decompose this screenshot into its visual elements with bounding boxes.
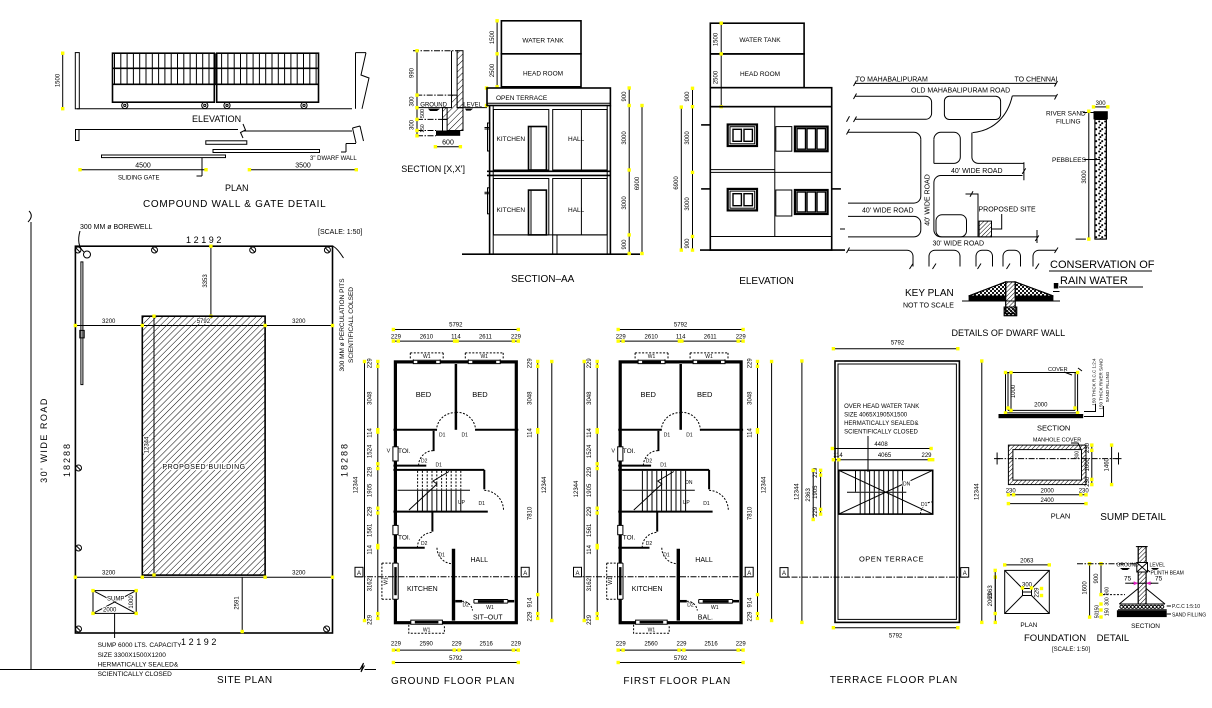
svg-text:CONSERVATION OF: CONSERVATION OF [1050,259,1155,271]
right dim 230/1000/230 [1091,445,1093,485]
toilet 1 walls [657,431,659,451]
svg-text:2000: 2000 [1034,403,1048,409]
dim 1000 [1010,373,1012,411]
svg-text:D1: D1 [439,553,446,559]
FF left window [728,125,757,147]
svg-text:1000: 1000 [129,595,135,609]
svg-text:229: 229 [367,466,373,477]
sunshade dashed box [410,353,443,360]
wall between bedrooms [455,364,458,411]
west window W1 [393,563,398,599]
gate mid rails [113,67,319,69]
svg-text:HERMATICALLY SEALED&: HERMATICALLY SEALED& [98,662,179,669]
svg-text:4500: 4500 [135,163,151,170]
block2 rounded rect [944,96,1000,119]
svg-text:229: 229 [747,611,753,622]
svg-text:914: 914 [747,597,753,608]
svg-text:HALL: HALL [568,136,585,143]
svg-text:1561: 1561 [587,523,593,537]
svg-text:12344: 12344 [542,476,548,493]
mid dash-dot level [416,94,451,96]
svg-text:114: 114 [587,428,593,438]
svg-text:DN: DN [685,480,693,486]
section line A-A [575,576,752,578]
svg-text:SAND FILLING: SAND FILLING [1105,371,1110,402]
left wall sunshades [485,128,490,194]
svg-text:BED: BED [697,390,713,399]
svg-text:1500: 1500 [56,73,62,87]
svg-text:229: 229 [813,506,819,517]
first floor hall room box [553,110,607,171]
bedroom south walls [393,429,436,431]
OMR road top edge [854,81,1058,87]
svg-text:2063: 2063 [1020,558,1034,564]
dim column x=364.5 [364,362,366,621]
dim 4500 [78,163,207,172]
left road lower edge + corner down [848,216,921,237]
ground floor hall box [553,179,607,235]
svg-text:D2: D2 [421,541,428,547]
plan left post [76,130,80,141]
svg-text:12344: 12344 [574,480,580,497]
svg-text:FILLING: FILLING [1056,119,1081,126]
svg-text:GROUND FLOOR PLAN: GROUND FLOOR PLAN [391,676,515,687]
borewell circle [84,251,91,258]
vertical dim line [416,51,418,136]
staircase walls [618,469,709,471]
svg-text:HALL: HALL [695,557,713,564]
sunshade dashed box [465,353,503,360]
plan left dim 2063 [994,570,996,613]
svg-text:2500: 2500 [490,63,496,77]
svg-text:D1: D1 [660,463,667,469]
footing plan square [1005,570,1050,613]
svg-text:229: 229 [587,506,593,517]
svg-text:300: 300 [410,119,416,130]
south window W1 kitchen [636,620,668,625]
GF left window [728,189,757,211]
connector road right edge [972,133,1024,164]
kitchen door D1 [437,548,453,564]
staircase walls [393,469,484,471]
pit column sand fill [1095,119,1107,239]
svg-text:TOI.: TOI. [623,535,636,542]
center line [997,458,1118,460]
big vertical road right edge lower seg [934,183,978,237]
svg-text:ELEVATION: ELEVATION [739,276,794,287]
dash-dot footing bottom [417,135,436,137]
dim 2591 [241,577,243,633]
svg-text:5792: 5792 [674,322,688,328]
gate panel frame left leaf [113,53,215,102]
borewell leader [79,231,84,252]
middle road end cap [1022,162,1025,180]
kitchen door D1 [662,548,678,564]
first floor doorway [529,127,547,171]
svg-text:BAL.: BAL. [698,615,713,622]
dim 6900 [641,106,643,254]
dim 3500 [248,163,358,172]
svg-text:W1: W1 [705,354,713,360]
rubble row [1120,605,1123,608]
svg-text:229: 229 [367,614,373,625]
footing slopes [1119,589,1165,605]
svg-text:1500: 1500 [490,30,496,44]
dim line 1500/2500 [496,21,498,87]
svg-text:BED: BED [472,390,488,399]
dim line 1500/2500 inner [720,23,722,107]
svg-text:300 MM ø PERCULATION PITS: 300 MM ø PERCULATION PITS [339,278,346,372]
svg-text:12344: 12344 [762,476,768,493]
svg-text:SECTION–AA: SECTION–AA [511,274,575,285]
svg-text:150: 150 [1104,608,1110,617]
svg-text:6900: 6900 [635,176,641,190]
proposed site boundary [966,191,979,237]
svg-text:3048: 3048 [587,391,593,405]
svg-text:W1: W1 [423,627,431,633]
south window W1 kitchen [411,620,443,625]
sump plan ring hatched [1008,445,1086,485]
svg-text:3048: 3048 [367,391,373,405]
dim line 3200/3200 bottom [75,576,332,578]
svg-text:229: 229 [367,506,373,517]
dim column 900/3000/3000/900 [692,88,694,250]
center column rect [1023,589,1032,596]
svg-text:SECTION: SECTION [1131,623,1160,630]
svg-text:1460: 1460 [1105,457,1111,471]
kitchen east wall [452,549,455,621]
stair treads lower flight [642,491,685,511]
svg-text:SUMP DETAIL: SUMP DETAIL [1100,512,1166,523]
bottom road line with break [0,663,376,672]
svg-text:GROUND: GROUND [420,102,447,108]
svg-text:LEVEL: LEVEL [1150,563,1166,569]
svg-text:KITCHEN: KITCHEN [497,136,526,143]
dim column x=377.8 [377,362,379,619]
svg-text:A: A [523,571,527,577]
svg-text:1561: 1561 [367,523,373,537]
tank leader [867,436,869,472]
svg-text:KITCHEN: KITCHEN [497,207,526,214]
svg-text:D1: D1 [663,553,670,559]
ground line [462,253,640,255]
svg-text:SECTION: SECTION [1037,424,1070,433]
ground floor kitchen box [494,179,549,235]
svg-text:D1: D1 [479,501,486,507]
svg-text:229: 229 [1035,587,1041,598]
sit-out divider wall and window W1 [680,600,687,603]
step lines [443,108,448,131]
svg-text:114: 114 [367,544,373,554]
parapet corner dots [485,86,488,89]
svg-text:900: 900 [685,238,691,249]
svg-text:3048: 3048 [747,391,753,405]
30' road lower edge with plot openings [848,250,1056,266]
svg-text:2611: 2611 [479,334,493,340]
svg-text:229: 229 [587,614,593,625]
svg-text:LEVEL: LEVEL [463,102,482,108]
svg-text:TO MAHABALIPURAM: TO MAHABALIPURAM [856,77,928,84]
svg-text:229: 229 [736,642,747,648]
left dim 229/1905/229 [820,470,822,514]
wall hatched strip [457,51,463,108]
svg-text:SUMP 6000 LTS. CAPACITY: SUMP 6000 LTS. CAPACITY [98,642,182,649]
leader pebblees [1084,159,1100,161]
dim 3353 [210,246,212,316]
svg-text:WATER TANK: WATER TANK [522,38,564,45]
svg-text:2610: 2610 [420,334,434,340]
svg-text:D1: D1 [921,502,928,508]
water tank box [501,21,581,54]
svg-text:1000: 1000 [1085,457,1091,471]
head room box [710,54,804,88]
stair door D1 arc [709,490,728,510]
column bottom dots [1004,307,1017,316]
svg-text:D2: D2 [646,459,653,465]
svg-text:12192: 12192 [181,637,219,647]
svg-text:229: 229 [587,358,593,369]
svg-text:TOI.: TOI. [398,448,411,455]
proposed building hatched [142,316,265,575]
plan diagonals [1005,570,1050,613]
svg-text:SAND FILLING: SAND FILLING [1172,613,1206,619]
left outer dim 12344 [801,361,803,622]
stair treads upper flight [642,471,685,490]
svg-text:D1: D1 [439,432,446,438]
hall interior wall line [580,110,582,171]
wall face inner line [451,51,453,95]
svg-text:W1: W1 [711,605,719,611]
svg-text:2000: 2000 [1041,489,1055,495]
footing black band [436,131,460,136]
vent V toilet2 [618,525,623,534]
door leaves D1/D1 [679,411,682,430]
right wall pier with break [356,53,370,109]
svg-text:75: 75 [1124,576,1132,583]
svg-text:OPEN TERRACE: OPEN TERRACE [496,95,548,102]
svg-text:2500: 2500 [714,70,720,84]
parapet band [710,88,831,107]
left outer wall [489,106,491,255]
svg-text:500: 500 [420,109,426,118]
svg-text:2363: 2363 [806,488,812,502]
svg-text:3162: 3162 [587,577,593,591]
floor slab [487,170,610,172]
fence post circles left/bottom [76,465,330,632]
svg-text:TOI.: TOI. [623,448,636,455]
svg-text:229: 229 [528,611,534,622]
floor lines [710,169,775,171]
svg-text:D1: D1 [686,432,693,438]
svg-text:W1: W1 [486,605,494,611]
svg-text:3200: 3200 [292,319,306,325]
svg-text:30' WIDE ROAD: 30' WIDE ROAD [39,397,49,483]
OMR bottom edge right segment [1012,94,1057,100]
svg-text:SECTION [X,X']: SECTION [X,X'] [401,164,465,174]
svg-text:7810: 7810 [747,506,753,520]
svg-text:4065: 4065 [878,453,892,459]
svg-text:OVER HEAD WATER TANK: OVER HEAD WATER TANK [844,404,919,410]
dim column x=771.6 [771,362,773,621]
pit cap black [1094,111,1108,119]
svg-text:3000: 3000 [622,196,628,210]
pit column outline [1095,119,1107,239]
svg-text:SCIENTIFICALLY CLOSED: SCIENTIFICALLY CLOSED [844,430,918,436]
svg-text:BED: BED [416,390,432,399]
left dim 900 [1100,564,1102,595]
right wing triangle [1015,282,1053,296]
svg-text:UP: UP [683,500,691,506]
svg-text:5792: 5792 [674,656,688,662]
svg-text:HEAD ROOM: HEAD ROOM [523,71,563,78]
dim 1500 gate height [56,52,65,111]
window W1 top wall [468,359,500,364]
svg-text:2610: 2610 [645,334,659,340]
first floor kitchen room box [494,110,549,171]
svg-text:KITCHEN: KITCHEN [632,586,663,593]
block3 rounded rect [936,215,967,237]
sump leader [114,613,116,638]
svg-text:SIZE 4065X1905X1500: SIZE 4065X1905X1500 [844,413,908,419]
svg-text:5792: 5792 [889,633,903,639]
svg-text:A: A [782,571,786,577]
svg-text:300: 300 [1075,451,1081,460]
ground line right [457,107,487,109]
svg-text:W1: W1 [648,354,656,360]
svg-text:229: 229 [511,642,522,648]
fence post circles top [75,247,331,253]
svg-text:114: 114 [587,544,593,554]
sliding gate leader [197,158,203,176]
svg-text:2063: 2063 [988,585,994,599]
svg-text:HALL: HALL [568,207,585,214]
OMR bottom edge left block1 [854,94,932,123]
left dim 1600 [1089,564,1091,617]
west window W1 [618,563,623,599]
svg-text:900: 900 [1104,587,1110,596]
svg-text:PLAN: PLAN [1020,622,1037,629]
svg-text:114: 114 [367,428,373,438]
svg-text:W1: W1 [423,354,431,360]
svg-text:114: 114 [528,428,534,438]
svg-text:3353: 3353 [203,274,209,288]
svg-text:2591: 2591 [235,596,241,610]
stair break line [634,472,674,511]
open terrace parapet band [487,88,610,106]
left sunshade ticks [701,124,710,126]
svg-text:5792: 5792 [891,340,905,346]
base black band [999,414,1084,418]
vent V toilet1 [618,447,623,461]
gate panel frame right leaf [217,53,319,102]
curved road outer edge [973,96,1013,133]
svg-text:DETAILS OF DWARF WALL: DETAILS OF DWARF WALL [952,328,1066,338]
svg-text:12344: 12344 [145,436,151,453]
svg-text:COMPOUND WALL & GATE DETAI: COMPOUND WALL & GATE DETAIL [143,199,326,210]
dim 3000 [1088,111,1090,239]
svg-text:1905: 1905 [367,483,373,497]
svg-text:W1: W1 [480,354,488,360]
dim column x=597.2 [596,362,598,619]
left margin ticks [840,116,850,253]
svg-text:1000: 1000 [1011,384,1017,398]
svg-text:D2: D2 [421,459,428,465]
svg-text:40' WIDE ROAD: 40' WIDE ROAD [925,174,932,226]
svg-text:6900: 6900 [674,176,680,190]
svg-text:229: 229 [616,642,627,648]
dim 6900 [680,107,682,250]
dash-dot footing top [417,130,436,132]
plinth beam square [1137,563,1148,573]
column section [1138,547,1146,604]
stair door D1 arc [484,490,503,510]
svg-text:5792: 5792 [197,319,211,325]
svg-text:KEY PLAN: KEY PLAN [905,288,954,299]
window W1 top wall [413,359,440,364]
vent V toilet1 [393,447,398,461]
left wall post (elevation) [75,53,79,109]
right black band [1015,297,1053,301]
svg-text:2516: 2516 [704,642,718,648]
dim column x=757.5 [757,362,759,619]
section line A-A [357,576,528,578]
svg-text:[SCALE: 1:50]: [SCALE: 1:50] [1052,647,1090,653]
dashed leaders [1077,563,1137,565]
head room box [501,54,581,87]
svg-text:A: A [575,571,579,577]
svg-text:990: 990 [410,67,416,78]
dim column x=537.7 [537,362,539,619]
plan wall line with break [76,124,353,138]
svg-text:V: V [611,449,615,455]
parapet outer wall [835,361,959,622]
top dash-dot level line [413,50,458,52]
svg-text:SCIENTIFICALL COLSED: SCIENTIFICALL COLSED [348,287,355,363]
ground floor plan outer walls [395,362,516,623]
percolation pits leader arc [333,246,344,258]
svg-text:PROPOSED SITE: PROPOSED SITE [979,207,1037,214]
svg-text:150 THICK RIVER SAND: 150 THICK RIVER SAND [1099,358,1104,410]
stair treads lower flight [418,491,461,511]
svg-text:1600: 1600 [1083,581,1089,595]
svg-text:300: 300 [410,96,416,107]
cross diagonals [839,470,933,514]
gate wheels [122,102,128,108]
sunshade dashed box [635,353,668,360]
svg-text:TO CHENNAI: TO CHENNAI [1015,77,1058,84]
toilet 2 walls [656,512,658,532]
svg-text:FIRST FLOOR PLAN: FIRST FLOOR PLAN [623,676,731,687]
plan right dwarf wall with break [341,126,364,152]
site leader [992,214,1002,229]
svg-text:D1: D1 [436,463,443,469]
svg-text:150 THICK R.C.C 1:2:4: 150 THICK R.C.C 1:2:4 [1092,358,1097,405]
right outer dim 12344 [981,361,983,622]
svg-text:900: 900 [622,239,628,250]
stair treads upper [856,471,903,492]
svg-text:TOI.: TOI. [398,535,411,542]
door leaves D1/D1 [455,411,458,430]
stair landing line [398,489,471,491]
svg-text:OLD MAHABALIPURAM ROAD: OLD MAHABALIPURAM ROAD [911,88,1010,95]
svg-text:NOT TO SCALE: NOT TO SCALE [903,303,954,310]
svg-text:300: 300 [1104,597,1110,606]
svg-text:1500: 1500 [714,32,720,46]
dim column x=551.8 [551,362,553,621]
svg-text:D2: D2 [463,602,470,608]
center column hatched [1006,282,1016,314]
svg-text:5792: 5792 [449,322,463,328]
